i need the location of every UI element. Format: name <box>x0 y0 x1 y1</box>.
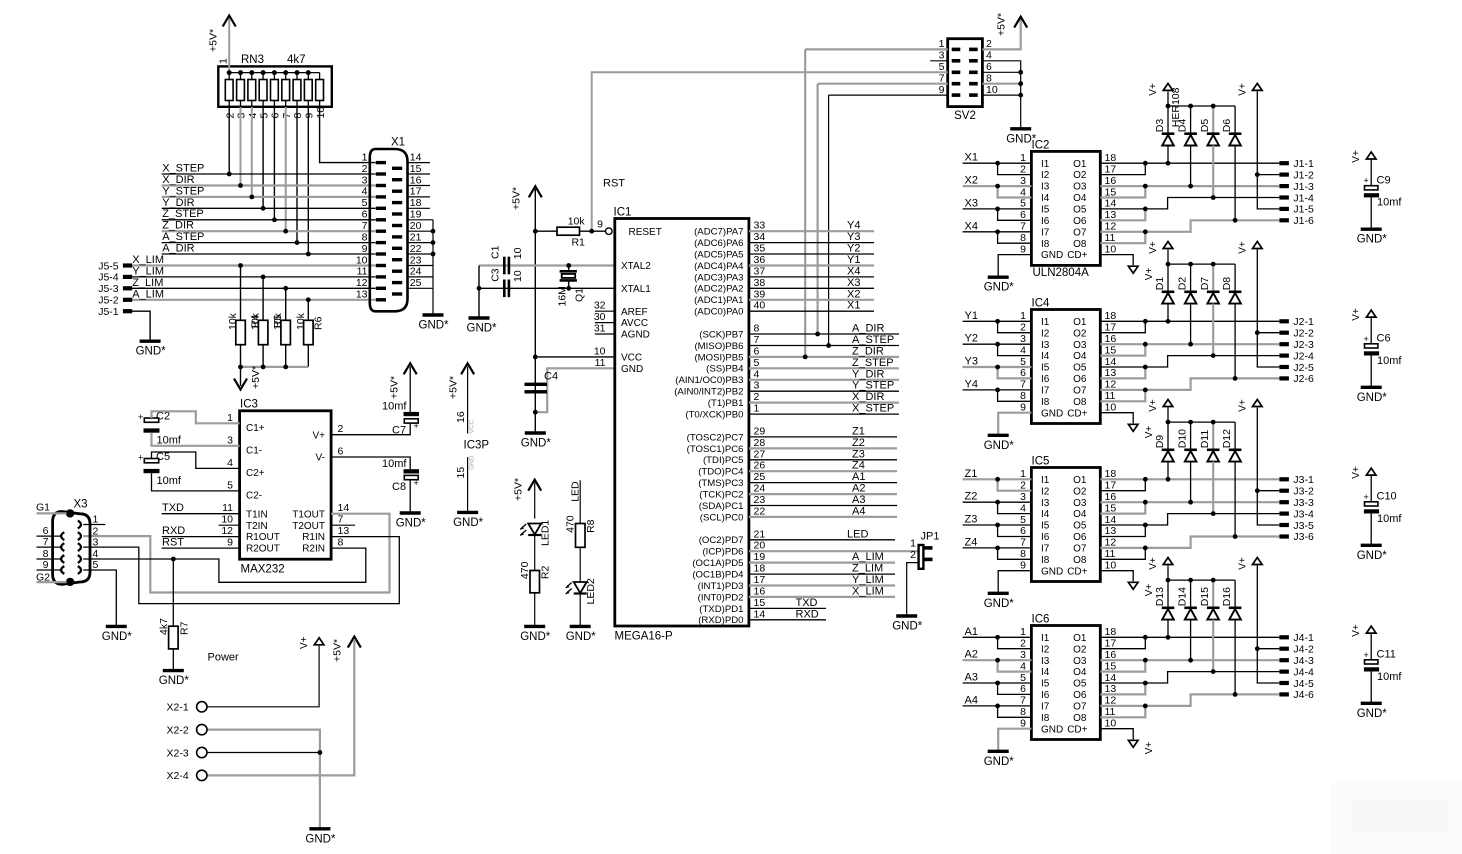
svg-text:+: + <box>138 452 143 462</box>
V+ supply IC5 J feed <box>1238 399 1263 412</box>
svg-text:(OC1A)PD5: (OC1A)PD5 <box>692 558 743 569</box>
svg-text:J4-2: J4-2 <box>1293 644 1314 656</box>
svg-text:MAX232: MAX232 <box>241 564 285 576</box>
svg-text:A_LIM: A_LIM <box>132 288 164 300</box>
junction O3/O4 <box>1143 342 1148 347</box>
capacitor C7 <box>382 401 419 437</box>
svg-text:Y1: Y1 <box>965 310 978 322</box>
ground R2 <box>520 626 551 643</box>
svg-text:4: 4 <box>1020 502 1026 514</box>
wire D11 anode <box>1212 462 1214 514</box>
svg-text:D1: D1 <box>1154 277 1166 291</box>
wire O5 out <box>1100 672 1279 683</box>
junction net tap 0 <box>227 172 232 177</box>
svg-text:20: 20 <box>754 540 766 552</box>
svg-text:GND*: GND* <box>396 518 427 530</box>
wire +5V vertical <box>534 189 536 433</box>
wire net X3 <box>749 287 874 289</box>
resistor R1 <box>557 216 585 249</box>
svg-text:GND: GND <box>469 455 476 470</box>
V+ supply C10 <box>1351 466 1376 479</box>
svg-text:O4: O4 <box>1073 351 1087 362</box>
svg-text:X_LIM: X_LIM <box>852 585 884 597</box>
V+ supply IC6 CD+ <box>1128 740 1155 754</box>
wire C11 bottom <box>1370 672 1372 704</box>
V+ supply IC4 diode rail <box>1148 241 1173 254</box>
wire IC3P pin16 <box>467 367 469 434</box>
svg-text:Z4: Z4 <box>965 536 978 548</box>
svg-text:ULN2804A: ULN2804A <box>1033 267 1090 279</box>
wire net Z4 <box>963 547 1032 549</box>
svg-text:I7: I7 <box>1041 544 1050 555</box>
wire net A3 <box>963 682 1032 684</box>
wire R8 to LED2 <box>579 547 581 582</box>
svg-text:GND: GND <box>1041 566 1063 577</box>
svg-text:GND*: GND* <box>136 346 167 358</box>
svg-text:16: 16 <box>410 174 422 186</box>
wire CD+ to V+ <box>1100 413 1133 424</box>
svg-text:470: 470 <box>519 561 531 579</box>
svg-text:X_LIM: X_LIM <box>132 254 164 266</box>
junction rail <box>1211 104 1216 109</box>
svg-text:1: 1 <box>754 403 760 415</box>
svg-text:I8: I8 <box>1041 713 1050 724</box>
wire D10 anode <box>1190 462 1192 503</box>
svg-text:J2-6: J2-6 <box>1293 373 1314 385</box>
svg-text:18: 18 <box>1105 310 1117 322</box>
svg-text:I5: I5 <box>1041 679 1050 690</box>
resistor R7 <box>158 618 191 649</box>
svg-text:Z_STEP: Z_STEP <box>852 357 894 369</box>
svg-text:R2IN: R2IN <box>302 544 325 555</box>
junction R6 tap <box>306 297 311 302</box>
svg-text:D2: D2 <box>1177 277 1189 291</box>
svg-text:I1: I1 <box>1041 633 1050 644</box>
wire R2 to gnd <box>534 593 536 627</box>
wire Y3 to pin6 <box>998 367 1032 378</box>
ground C4 <box>521 433 552 450</box>
svg-text:14: 14 <box>1105 198 1117 210</box>
svg-text:HER108: HER108 <box>1170 87 1182 127</box>
wire net X_STEP <box>162 173 376 175</box>
svg-text:I2: I2 <box>1041 486 1050 497</box>
svg-text:XTAL2: XTAL2 <box>621 261 651 272</box>
svg-text:GND: GND <box>1041 724 1063 735</box>
svg-text:(MISO)PB6: (MISO)PB6 <box>694 341 743 352</box>
resistor R8 <box>565 515 598 547</box>
junction J-2 tap <box>1255 330 1260 335</box>
wire IC1 pin31 stub <box>595 333 615 335</box>
svg-text:GND: GND <box>621 364 643 375</box>
svg-text:(SDA)PC1: (SDA)PC1 <box>699 501 744 512</box>
svg-text:C1: C1 <box>490 245 502 259</box>
svg-text:X4: X4 <box>847 265 860 277</box>
svg-text:MEGA16-P: MEGA16-P <box>615 631 673 643</box>
svg-text:40: 40 <box>754 300 766 312</box>
svg-text:R2OUT: R2OUT <box>246 544 280 555</box>
junction net tap 7 <box>306 252 311 257</box>
wire pin2 to C7 <box>331 423 410 435</box>
wire CD+ to V+ <box>1100 729 1133 740</box>
junction rail <box>1188 262 1193 267</box>
ground C8 <box>396 513 427 530</box>
junction R4 tap <box>261 275 266 280</box>
svg-text:GND*: GND* <box>467 323 498 335</box>
svg-text:(AIN1/OC0)PB3: (AIN1/OC0)PB3 <box>675 375 743 386</box>
wire V+ to J-2/J-5 <box>1257 250 1279 368</box>
svg-text:5: 5 <box>939 61 945 73</box>
resistor network RN3 <box>218 54 332 119</box>
svg-text:O6: O6 <box>1073 216 1087 227</box>
junction Y1 split <box>995 319 1000 324</box>
svg-text:O3: O3 <box>1073 340 1087 351</box>
pad J1-1 <box>1279 158 1314 170</box>
svg-text:9: 9 <box>362 243 368 255</box>
diode D3 <box>1154 119 1174 146</box>
wire net X2 <box>963 185 1032 187</box>
wire net Z_LIM <box>749 573 895 575</box>
svg-text:G1: G1 <box>36 501 50 513</box>
wire net RST <box>162 547 240 549</box>
svg-text:R8: R8 <box>585 519 597 533</box>
svg-text:I2: I2 <box>1041 644 1050 655</box>
svg-text:Z4: Z4 <box>852 460 865 472</box>
wire X3 G2 <box>37 581 67 583</box>
wire X1 pin23 <box>408 265 434 267</box>
svg-text:11: 11 <box>357 266 368 278</box>
svg-text:+5V*: +5V* <box>513 478 525 501</box>
wire O2 join <box>1100 637 1145 648</box>
svg-text:Y3: Y3 <box>965 356 978 368</box>
wire O8 join <box>1100 548 1145 559</box>
V+ supply IC2 CD+ <box>1128 266 1155 280</box>
svg-text:J5-4: J5-4 <box>98 272 119 284</box>
wire RN3 common rail <box>229 72 319 74</box>
wire O7 out <box>1100 537 1279 548</box>
wire O7 out <box>1100 694 1279 706</box>
wire O5 out <box>1100 514 1279 525</box>
svg-text:6: 6 <box>270 113 282 119</box>
pad J1-5 <box>1279 204 1314 216</box>
junction net tap 2 <box>249 195 254 200</box>
LED LED1 <box>520 520 552 546</box>
svg-text:D14: D14 <box>1177 587 1189 606</box>
wire O8 join <box>1100 390 1145 401</box>
junction X1-20 <box>431 229 436 234</box>
wire O4 join <box>1100 502 1145 513</box>
pad J5-2 <box>123 298 132 302</box>
capacitor C6 <box>1364 333 1403 367</box>
svg-text:D10: D10 <box>1177 429 1189 448</box>
pad J3-1 <box>1279 474 1314 486</box>
svg-text:10: 10 <box>1105 402 1117 414</box>
svg-text:RN3: RN3 <box>241 54 264 66</box>
svg-text:14: 14 <box>410 151 422 163</box>
wire O4 join <box>1100 186 1145 197</box>
svg-text:V+: V+ <box>1351 624 1362 637</box>
wire SV2 pin8 <box>982 83 1020 85</box>
ground SV2 <box>1006 129 1037 146</box>
svg-text:Y_DIR: Y_DIR <box>162 197 194 209</box>
svg-text:J3-6: J3-6 <box>1293 531 1314 543</box>
wire net A1 <box>963 636 1032 638</box>
V+ supply IC2 diode rail <box>1148 83 1173 96</box>
svg-text:8: 8 <box>1020 706 1026 718</box>
pad J3-6 <box>1279 531 1314 543</box>
svg-text:J3-4: J3-4 <box>1293 508 1314 520</box>
svg-text:10: 10 <box>1105 560 1117 572</box>
svg-text:TXD: TXD <box>796 597 818 609</box>
svg-text:A4: A4 <box>965 694 978 706</box>
wire net Z3 <box>963 524 1032 526</box>
svg-text:X4: X4 <box>965 220 978 232</box>
svg-text:+: + <box>1364 492 1369 502</box>
wire GND pin11 <box>535 368 615 412</box>
svg-text:Z1: Z1 <box>852 425 865 437</box>
wire X4 to pin8 <box>998 232 1032 243</box>
svg-text:(OC2)PD7: (OC2)PD7 <box>699 535 744 546</box>
junction rail <box>1166 104 1171 109</box>
wire net A1 <box>749 482 897 484</box>
svg-text:+: + <box>414 421 419 431</box>
wire Y4 to pin8 <box>998 390 1032 401</box>
svg-text:O3: O3 <box>1073 182 1087 193</box>
svg-text:Z2: Z2 <box>965 491 978 503</box>
svg-text:(TDO)PC4: (TDO)PC4 <box>698 467 744 478</box>
svg-text:3: 3 <box>939 50 945 62</box>
wire O4 join <box>1100 660 1145 671</box>
svg-text:J4-4: J4-4 <box>1293 666 1314 678</box>
svg-text:R2: R2 <box>540 566 552 580</box>
junction net tap 6 <box>295 240 300 245</box>
wire RN3 pin9 to row <box>307 107 309 254</box>
junction O7/O8 <box>1143 546 1148 551</box>
svg-text:AGND: AGND <box>621 330 650 341</box>
svg-text:I7: I7 <box>1041 227 1050 238</box>
wire rail to +5V <box>240 367 242 386</box>
wire O8 join <box>1100 706 1145 717</box>
junction D14 out <box>1188 658 1193 663</box>
wire net Z_STEP <box>162 219 376 221</box>
junction Z3 split <box>995 523 1000 528</box>
wire Y2 to pin4 <box>998 344 1032 355</box>
wire net Y3 <box>963 366 1032 368</box>
wire X1 pin21 <box>408 242 434 244</box>
V+ supply IC4 J feed <box>1238 241 1263 254</box>
svg-text:+5V*: +5V* <box>996 13 1008 36</box>
wire J5-1 to ground <box>132 311 150 341</box>
junction O3/O4 <box>1143 500 1148 505</box>
wire V+ to J-2/J-5 <box>1257 566 1279 684</box>
svg-text:J5-3: J5-3 <box>98 283 119 295</box>
ground C10 <box>1357 545 1388 562</box>
ground C6 <box>1357 387 1388 404</box>
connector X3 (DB9) <box>36 499 99 587</box>
junction SV2-10 <box>1018 93 1023 98</box>
svg-text:23: 23 <box>754 494 766 506</box>
diode D15 <box>1199 587 1219 620</box>
svg-text:I5: I5 <box>1041 363 1050 374</box>
wire R6 top <box>307 300 309 321</box>
svg-text:I5: I5 <box>1041 205 1050 216</box>
pad J2-5 <box>1279 362 1314 374</box>
pad X2-3 <box>197 747 207 757</box>
svg-text:C1+: C1+ <box>246 423 265 434</box>
ground IC4 <box>984 435 1015 452</box>
wire net X_STEP <box>749 413 899 415</box>
diode D6 <box>1221 119 1241 146</box>
svg-text:O8: O8 <box>1073 555 1087 566</box>
svg-text:Y_LIM: Y_LIM <box>852 574 884 586</box>
wire CD+ to V+ <box>1100 255 1133 266</box>
svg-text:X_STEP: X_STEP <box>852 403 894 415</box>
V+ supply C6 <box>1351 308 1376 321</box>
svg-text:1: 1 <box>227 412 233 424</box>
wire D7 cathode <box>1212 264 1214 292</box>
svg-text:X3: X3 <box>847 277 860 289</box>
wire LED2 to gnd <box>579 594 581 626</box>
svg-text:O2: O2 <box>1073 170 1087 181</box>
wire D14 cathode <box>1190 580 1192 608</box>
junction O5/O6 <box>1143 681 1148 686</box>
svg-text:22: 22 <box>410 243 422 255</box>
svg-text:X3: X3 <box>74 499 88 511</box>
diode D11 <box>1199 430 1219 462</box>
svg-text:5: 5 <box>1020 672 1026 684</box>
IC IC4 ULN2804A <box>1020 298 1116 424</box>
wire O5 out <box>1100 198 1279 209</box>
V+ supply C9 <box>1351 150 1376 163</box>
svg-text:V+: V+ <box>312 430 325 441</box>
svg-text:(SCK)PB7: (SCK)PB7 <box>699 329 743 340</box>
svg-text:RST: RST <box>162 537 184 549</box>
svg-text:5: 5 <box>227 479 233 491</box>
svg-text:Y2: Y2 <box>847 243 860 255</box>
svg-text:8: 8 <box>338 537 344 549</box>
junction rail <box>1211 262 1216 267</box>
capacitor C11 <box>1364 649 1403 683</box>
wire LED net <box>579 480 581 523</box>
svg-text:2: 2 <box>754 391 760 403</box>
wire R1IN to X3 pin3 <box>83 537 399 604</box>
svg-text:R1OUT: R1OUT <box>246 532 280 543</box>
svg-text:+: + <box>1364 650 1369 660</box>
svg-text:(SCL)PC0: (SCL)PC0 <box>700 512 744 523</box>
svg-text:A_STEP: A_STEP <box>162 231 204 243</box>
resistor R3 <box>236 320 246 344</box>
svg-text:I4: I4 <box>1041 509 1050 520</box>
wire C6 bottom <box>1370 356 1372 388</box>
svg-text:V+: V+ <box>1148 241 1159 254</box>
junction rail <box>1211 420 1216 425</box>
svg-text:I4: I4 <box>1041 667 1050 678</box>
svg-text:22: 22 <box>754 505 766 517</box>
V+ supply IC2 J feed <box>1238 83 1263 96</box>
capacitor C5 <box>138 451 182 487</box>
junction J-2 tap <box>1255 646 1260 651</box>
wire Z4 to pin8 <box>998 548 1032 559</box>
svg-text:O6: O6 <box>1073 374 1087 385</box>
capacitor C9 <box>1364 175 1403 209</box>
svg-text:O5: O5 <box>1073 205 1087 216</box>
ground C11 <box>1357 703 1388 720</box>
svg-text:D16: D16 <box>1221 587 1233 606</box>
wire D7 anode <box>1212 304 1214 356</box>
svg-text:10: 10 <box>1105 718 1117 730</box>
junction Y4 split <box>995 388 1000 393</box>
svg-text:GND*: GND* <box>419 320 450 332</box>
svg-text:I1: I1 <box>1041 475 1050 486</box>
svg-text:3: 3 <box>236 113 248 119</box>
wire O7 out <box>1100 220 1279 232</box>
svg-text:(AIN0/INT2)PB2: (AIN0/INT2)PB2 <box>674 387 743 398</box>
wire X1 pin14 <box>408 162 431 164</box>
junction X1 split <box>995 161 1000 166</box>
wire X3 pin1 stub <box>83 524 105 526</box>
wire O1 out <box>1100 162 1279 164</box>
svg-text:GND*: GND* <box>159 675 190 687</box>
wire D1 anode <box>1167 304 1169 322</box>
wire RN3 pin2 to row <box>228 107 230 174</box>
pad J2-4 <box>1279 350 1314 362</box>
svg-text:7: 7 <box>1020 695 1026 707</box>
wire net X_DIR <box>749 402 899 404</box>
svg-text:R1IN: R1IN <box>302 532 325 543</box>
svg-text:(TXD)PD1: (TXD)PD1 <box>699 604 743 615</box>
connector SV2 <box>939 38 998 122</box>
svg-text:O7: O7 <box>1073 386 1087 397</box>
wire X1 to pin2 <box>998 163 1032 174</box>
wire R3 bottom <box>240 345 242 367</box>
capacitor C8 <box>382 458 419 493</box>
pad J4-1 <box>1279 632 1314 644</box>
+5V* supply IC1 VCC rail <box>511 186 542 210</box>
svg-text:5: 5 <box>362 197 368 209</box>
svg-text:I6: I6 <box>1041 216 1050 227</box>
ground IC5 <box>984 593 1015 610</box>
svg-text:6: 6 <box>1020 683 1026 695</box>
svg-text:JP1: JP1 <box>921 531 940 543</box>
svg-text:VCC: VCC <box>469 419 476 433</box>
ground X1 <box>419 315 450 332</box>
svg-text:O5: O5 <box>1073 679 1087 690</box>
svg-text:8: 8 <box>754 323 760 335</box>
svg-text:36: 36 <box>754 254 766 266</box>
wire D12 cathode <box>1234 422 1236 450</box>
svg-text:(SS)PB4: (SS)PB4 <box>706 364 744 375</box>
capacitor C2 <box>138 411 182 447</box>
svg-text:10mf: 10mf <box>1377 671 1402 683</box>
svg-text:4k7: 4k7 <box>158 618 170 635</box>
diode D5 <box>1199 119 1219 146</box>
wire SV2 pin1 (Z_DIR) <box>805 48 948 50</box>
wire O3 out <box>1100 343 1279 345</box>
junction Z1 split <box>995 477 1000 482</box>
diode D2 <box>1177 277 1197 304</box>
svg-text:X2: X2 <box>965 175 978 187</box>
junction D2 out <box>1188 342 1193 347</box>
svg-text:IC5: IC5 <box>1032 456 1050 468</box>
junction rail <box>1166 578 1171 583</box>
svg-text:32: 32 <box>594 300 606 312</box>
wire D11 cathode <box>1212 422 1214 450</box>
wire C10 top <box>1370 475 1372 502</box>
pad J5-1 <box>123 309 132 313</box>
svg-text:IC1: IC1 <box>614 207 632 219</box>
wire R5 bottom <box>285 345 287 367</box>
wire net A_STEP <box>749 345 899 347</box>
wire net Y4 <box>749 230 874 232</box>
